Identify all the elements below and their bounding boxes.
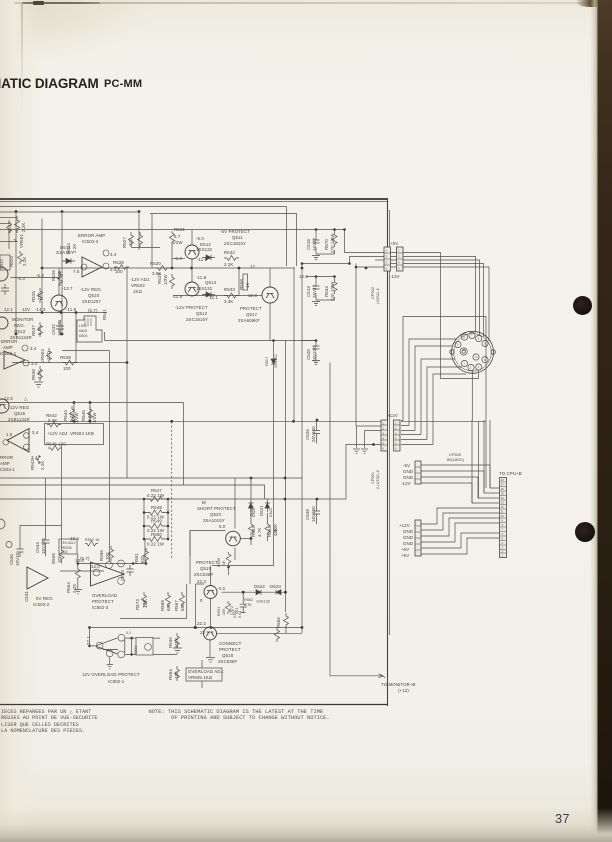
diode D521 <box>265 499 270 512</box>
pin circle k <box>96 642 103 649</box>
svg-text:R544: R544 <box>63 410 68 421</box>
junction dot 25 <box>143 511 146 514</box>
inner frame line B <box>150 214 297 267</box>
pin circle b <box>103 250 109 256</box>
pin circle m <box>118 651 125 658</box>
svg-text:3.4: 3.4 <box>31 361 38 366</box>
left spine shadow <box>0 0 52 842</box>
svg-text:-11.9: -11.9 <box>172 294 183 299</box>
resistor R539 <box>62 360 77 365</box>
vertical x127 <box>126 267 128 478</box>
svg-text:9: 9 <box>457 343 459 347</box>
svg-text:R536: R536 <box>168 637 173 648</box>
connector pin 6 <box>476 364 482 370</box>
vertical x356 <box>355 264 357 427</box>
svg-text:2SC536F: 2SC536F <box>218 659 237 664</box>
label r566 <box>276 617 281 628</box>
svg-text:IC502-1: IC502-1 <box>108 679 125 684</box>
capacitor C536 <box>17 545 24 557</box>
wire q519 d522 row <box>222 591 286 593</box>
junction dot 3 <box>138 210 141 213</box>
svg-text:REG.: REG. <box>14 323 25 328</box>
resistor R544 <box>70 406 75 421</box>
connector circle tab right <box>491 350 495 354</box>
svg-text:R525: R525 <box>31 291 36 302</box>
label c519 <box>306 284 317 298</box>
svg-text:△: △ <box>24 396 28 401</box>
resistor R520 <box>155 266 170 271</box>
svg-text:C526: C526 <box>305 429 310 440</box>
label r575 <box>174 600 185 611</box>
svg-text:3.4: 3.4 <box>32 430 39 435</box>
junction dot 22 <box>170 420 173 423</box>
svg-text:+5V: +5V <box>390 241 398 246</box>
bottom shadow gradient <box>0 808 612 842</box>
label r568 <box>239 279 250 290</box>
svg-text:+12V: +12V <box>399 523 410 528</box>
box u6 right <box>136 638 153 656</box>
label r554 <box>168 669 179 680</box>
resistor R534 lead <box>316 277 335 301</box>
svg-text:7.5: 7.5 <box>73 269 80 274</box>
connector pin 1 <box>461 334 467 340</box>
cp502 feed d <box>375 259 384 261</box>
svg-text:80(18SC): 80(18SC) <box>447 458 465 462</box>
wire main bus y268 <box>42 267 295 269</box>
label vr501 <box>19 234 24 248</box>
note text EN <box>149 709 330 721</box>
module box L501 <box>77 316 102 342</box>
wire y618 <box>120 584 187 618</box>
transistor cut left y524 <box>0 519 5 529</box>
wire x88 join <box>88 627 170 629</box>
wire below circle <box>471 370 473 421</box>
inner frame drop x286 <box>286 207 288 267</box>
right dark scan strip <box>597 0 612 842</box>
rail C520 <box>302 340 316 342</box>
junction dot 34 <box>301 626 304 629</box>
svg-text:5.6K: 5.6K <box>48 418 57 423</box>
pin circle n <box>145 644 152 651</box>
svg-text:6: 6 <box>478 337 480 341</box>
svg-text:Q520: Q520 <box>210 512 222 517</box>
label c520 <box>306 346 317 362</box>
svg-text:-5.0: -5.0 <box>196 236 204 241</box>
svg-text:OVERLOAD ADJ.: OVERLOAD ADJ. <box>188 669 224 674</box>
wire to monitor L <box>330 363 383 676</box>
svg-text:3.3K: 3.3K <box>224 299 233 304</box>
resistor R550b <box>144 537 168 542</box>
label r524b <box>66 243 77 254</box>
wire 12v bus y312 <box>0 312 107 314</box>
connector CP502 bar2 <box>397 247 404 271</box>
transistor Q512 <box>185 282 199 296</box>
resistor R564 <box>75 566 80 581</box>
svg-text:R564: R564 <box>267 526 272 537</box>
svg-text:R552 1K: R552 1K <box>85 538 100 542</box>
svg-text:+5V: +5V <box>401 547 409 552</box>
wires cpB to cpu <box>421 508 500 554</box>
wire u6 rows <box>125 638 177 654</box>
label r544 <box>63 410 79 423</box>
transistor Q511 <box>185 245 199 259</box>
svg-text:12.3: 12.3 <box>248 293 257 298</box>
op-amp U3 triangle <box>7 429 29 453</box>
svg-text:R545: R545 <box>81 410 86 421</box>
svg-text:Q512: Q512 <box>196 311 208 316</box>
cp502 between bars <box>391 253 397 268</box>
svg-text:16V10: 16V10 <box>15 552 20 566</box>
label r537 <box>31 325 42 336</box>
wire x45 c534 <box>45 478 47 534</box>
transistor Q515 cut left <box>0 399 9 413</box>
svg-text:GND: GND <box>403 541 413 546</box>
svg-text:D521: D521 <box>259 505 264 516</box>
resistor R576 <box>275 627 280 642</box>
wire q511 collector <box>191 259 193 268</box>
wire +12v row <box>302 420 486 422</box>
label c517 <box>102 309 107 320</box>
svg-text:-13.7: -13.7 <box>62 286 73 291</box>
svg-text:4.7K: 4.7K <box>257 528 262 537</box>
vertical bus x389 <box>389 210 391 635</box>
wire nest n3 <box>415 346 452 431</box>
transistor Q510 <box>51 295 67 311</box>
junction dot 23 <box>143 498 146 501</box>
resistor R531 <box>170 231 175 244</box>
connector pin 5 <box>482 357 488 363</box>
svg-text:R534: R534 <box>324 286 329 297</box>
connector pin 2 <box>469 332 475 338</box>
ground C518 <box>312 256 320 260</box>
label c536b <box>24 591 29 602</box>
box +5V ADJ <box>59 539 77 554</box>
diode D513 <box>202 292 215 297</box>
svg-text:R526: R526 <box>51 270 56 281</box>
vertical x302 <box>301 264 303 634</box>
svg-text:C519: C519 <box>306 286 311 297</box>
potentiometer VR503 <box>47 348 52 363</box>
cp502 feed staircase a <box>345 230 385 253</box>
junction dot 41 <box>77 562 80 565</box>
svg-text:3.4: 3.4 <box>110 252 117 257</box>
svg-text:12.1: 12.1 <box>209 295 218 300</box>
svg-text:IC503-1: IC503-1 <box>0 351 17 356</box>
svg-text:5.6K: 5.6K <box>37 326 42 335</box>
svg-text:22.: 22. <box>200 630 206 635</box>
svg-text:-12V REG.: -12V REG. <box>80 287 102 292</box>
junction dot 55 <box>315 275 318 278</box>
label cp501 <box>371 470 380 489</box>
resistor R568 <box>243 274 248 290</box>
svg-text:3.4: 3.4 <box>110 267 117 272</box>
border top second line <box>0 201 388 203</box>
svg-text:R537: R537 <box>31 325 36 336</box>
wire y499 riser <box>0 445 374 500</box>
wire x486 drop <box>479 421 487 498</box>
wire r539 bus y362 <box>12 362 127 364</box>
junction dot 15 <box>126 361 129 364</box>
svg-text:IC503-2: IC503-2 <box>33 602 50 607</box>
svg-text:12.1: 12.1 <box>4 307 13 312</box>
diode D522 <box>256 590 261 595</box>
verticals circle to cpu row <box>472 420 490 503</box>
junction dot 31 <box>250 537 253 540</box>
svg-text:-5.3: -5.3 <box>17 276 25 281</box>
svg-text:R549: R549 <box>151 519 162 524</box>
svg-text:2.2K: 2.2K <box>224 262 233 267</box>
svg-text:16V100: 16V100 <box>311 506 316 522</box>
svg-text:R528: R528 <box>113 260 124 265</box>
junction dot 13 <box>60 311 63 314</box>
ground u6 <box>107 657 114 669</box>
svg-text:AMP: AMP <box>3 345 13 350</box>
left edge box Q540 <box>0 255 10 270</box>
capacitor C518 <box>313 240 320 243</box>
label r534 <box>324 281 335 301</box>
label r543b <box>30 459 35 470</box>
junction dot 19 <box>89 401 92 404</box>
svg-text:R566: R566 <box>276 617 281 628</box>
svg-text:R568: R568 <box>160 600 165 611</box>
junction dot 48 <box>284 498 287 501</box>
svg-text:1: 1 <box>463 362 465 366</box>
wire stub r527 row <box>131 247 160 249</box>
ground sym A <box>34 382 43 387</box>
svg-text:1KΩ: 1KΩ <box>46 350 51 360</box>
wire bundle top w3 <box>403 260 480 335</box>
top-left beige corner shading <box>0 0 150 60</box>
svg-text:16V470: 16V470 <box>57 320 62 336</box>
wire d520 to r563 <box>251 513 268 545</box>
svg-text:-12V: -12V <box>390 274 400 279</box>
svg-text:(1/2SC)-4: (1/2SC)-4 <box>376 288 380 304</box>
junction dot 40 <box>194 626 197 629</box>
svg-text:27.1: 27.1 <box>86 636 91 645</box>
junction dot 60 <box>355 266 358 269</box>
svg-text:GND: GND <box>403 529 413 534</box>
svg-text:Q540: Q540 <box>0 259 4 269</box>
capacitor C518 lead <box>315 230 317 255</box>
svg-text:C518: C518 <box>306 239 311 250</box>
svg-text:680: 680 <box>180 603 185 611</box>
svg-text:12V: 12V <box>22 307 30 312</box>
junction dot 50 <box>242 591 245 594</box>
svg-text:100K: 100K <box>174 637 179 648</box>
svg-text:R573: R573 <box>135 599 140 610</box>
wire q520 leads <box>234 478 236 560</box>
junction dot 5 <box>171 267 174 270</box>
svg-text:(5.7): (5.7) <box>88 308 98 313</box>
svg-text:1SS132: 1SS132 <box>196 247 213 252</box>
svg-text:16V100: 16V100 <box>312 346 317 362</box>
label q540 <box>0 259 4 269</box>
resistor R524 <box>18 251 23 264</box>
pin circle g <box>106 562 113 569</box>
svg-text:R532: R532 <box>224 250 235 255</box>
pin circle q <box>3 440 9 446</box>
capacitor C520 <box>313 346 320 349</box>
svg-text:16V220: 16V220 <box>41 538 46 554</box>
svg-text:5.0: 5.0 <box>219 524 226 529</box>
wire long bus y480 <box>0 477 302 479</box>
svg-text:CONNECT: CONNECT <box>219 641 242 646</box>
svg-text:D523: D523 <box>270 584 281 589</box>
svg-text:11: 11 <box>475 355 478 359</box>
wire q517 leads <box>269 268 271 341</box>
resistor R547 <box>144 497 168 502</box>
svg-text:6A05: 6A05 <box>79 329 87 333</box>
pin circle h <box>118 560 125 567</box>
svg-text:CP501: CP501 <box>371 472 375 484</box>
label 27.1 <box>86 636 91 645</box>
svg-text:TO MONITOR+B: TO MONITOR+B <box>381 682 416 687</box>
svg-text:R543: R543 <box>30 459 35 470</box>
binding hole punch dot upper <box>573 296 592 315</box>
svg-text:17: 17 <box>250 264 256 269</box>
label c538 <box>305 506 316 522</box>
svg-text:C536: C536 <box>9 554 14 565</box>
connector pin 4 <box>482 340 488 346</box>
wire bottom bus y627 <box>170 627 302 629</box>
connector pin 9 <box>455 341 461 347</box>
transistor Q513 cut left <box>0 317 8 329</box>
svg-text:R570: R570 <box>324 239 329 250</box>
vertical x152 <box>151 214 153 269</box>
label c528 <box>305 426 316 442</box>
svg-text:2SD1207: 2SD1207 <box>82 299 101 304</box>
svg-text:VR503: VR503 <box>40 349 45 363</box>
wire x90 drop <box>89 403 91 422</box>
svg-text:+5V: +5V <box>401 553 409 558</box>
resistor R538 <box>38 366 43 381</box>
wire nest n6 <box>433 374 466 445</box>
resistor R537 <box>38 322 43 337</box>
pin circle o <box>24 433 30 439</box>
svg-text:-11.9: -11.9 <box>66 307 77 312</box>
transistor Q517 <box>262 287 278 303</box>
box VR604 <box>45 424 104 445</box>
junction dot 46 <box>292 420 295 423</box>
resistor R526 <box>58 271 63 286</box>
resistor R534b <box>332 279 337 294</box>
vertical x239 <box>238 268 240 296</box>
svg-text:C537: C537 <box>233 609 237 618</box>
svg-text:2.2K: 2.2K <box>40 461 45 470</box>
connector circle outer <box>452 331 494 373</box>
border right line <box>387 199 389 706</box>
junction dot 49 <box>284 591 287 594</box>
svg-text:+12V ADJ. VR604 1KB: +12V ADJ. VR604 1KB <box>47 431 94 436</box>
junction dot 14 <box>75 311 78 314</box>
top page edge darker segment <box>22 2 100 5</box>
label r527 <box>122 237 133 248</box>
svg-text:1SS132: 1SS132 <box>274 354 278 368</box>
svg-text:Q515: Q515 <box>14 411 26 416</box>
pin circle i <box>118 578 125 585</box>
resistor R540 <box>138 232 143 247</box>
junction dot 51 <box>194 626 197 629</box>
junction dot 44 <box>372 443 375 446</box>
svg-text:MONITOR: MONITOR <box>12 317 33 322</box>
junction dot 8 <box>301 267 304 270</box>
inner frame line A <box>0 206 287 208</box>
svg-text:10K: 10K <box>222 608 226 615</box>
op-amp U4 triangle <box>91 562 125 586</box>
label c518 <box>306 237 317 251</box>
label r538 <box>31 369 42 380</box>
svg-text:2.2K: 2.2K <box>72 584 77 593</box>
svg-text:5V REG: 5V REG <box>36 596 53 601</box>
svg-text:25V47: 25V47 <box>312 284 317 298</box>
junction dot 9 <box>365 267 368 270</box>
wire rail y263 <box>302 263 350 265</box>
svg-text:16V47: 16V47 <box>312 237 317 251</box>
wires cpA to cpu <box>421 465 500 503</box>
svg-text:1KΩ: 1KΩ <box>133 289 143 294</box>
wire q516 leads <box>210 627 302 657</box>
diode D511 <box>62 258 75 263</box>
wire x61 drop <box>61 445 63 549</box>
svg-text:0: 0 <box>200 598 203 603</box>
svg-text:R538: R538 <box>31 369 36 380</box>
wire bus y229 <box>0 229 345 231</box>
note text FR (cut at left) <box>1 709 98 735</box>
resistor R543b <box>36 453 41 466</box>
junction dot 36 <box>88 626 91 629</box>
connector pin 8 <box>461 360 467 366</box>
svg-text:D521: D521 <box>269 508 273 517</box>
vertical x273 <box>212 341 274 566</box>
connector pin 10 <box>460 348 467 355</box>
box VR505 <box>186 668 222 681</box>
svg-text:8: 8 <box>463 335 465 339</box>
svg-text:-12V: -12V <box>401 481 411 486</box>
junction dot 53 <box>315 228 318 231</box>
svg-text:-12V ADJ.: -12V ADJ. <box>130 277 151 282</box>
junction dot 54 <box>333 228 336 231</box>
resistor R561 <box>226 601 231 614</box>
transistor Q520 <box>226 531 241 546</box>
wire x74 drop <box>73 403 75 422</box>
connector CP505 bar A <box>415 461 421 484</box>
svg-text:22.2: 22.2 <box>197 621 206 626</box>
op-amp U1 triangle <box>82 257 102 277</box>
svg-text:7: 7 <box>471 334 473 338</box>
junction dot 26 <box>167 511 170 514</box>
svg-text:3: 3 <box>478 365 480 369</box>
junction dot 1 <box>15 210 18 213</box>
left edge stub y217 <box>0 217 16 219</box>
junction dot 47 <box>316 498 319 501</box>
svg-text:CP502: CP502 <box>371 287 375 299</box>
resistor R573 <box>142 592 147 607</box>
junction dot 21 <box>89 420 92 423</box>
capacitor C526 <box>313 421 320 444</box>
svg-text:R541: R541 <box>102 309 107 320</box>
svg-text:R563: R563 <box>251 526 256 537</box>
capacitor C533 <box>127 565 134 576</box>
svg-text:2SC1815Y: 2SC1815Y <box>186 317 208 322</box>
ground sym B <box>173 648 182 653</box>
wire nest n5 <box>427 367 462 440</box>
wire nest n4 <box>421 359 455 435</box>
svg-text:680: 680 <box>166 603 171 611</box>
junction dot 4 <box>41 267 44 270</box>
svg-text:R529: R529 <box>157 273 162 284</box>
svg-text:12.0: 12.0 <box>91 564 100 569</box>
svg-text:2SC1815Y: 2SC1815Y <box>224 241 246 246</box>
